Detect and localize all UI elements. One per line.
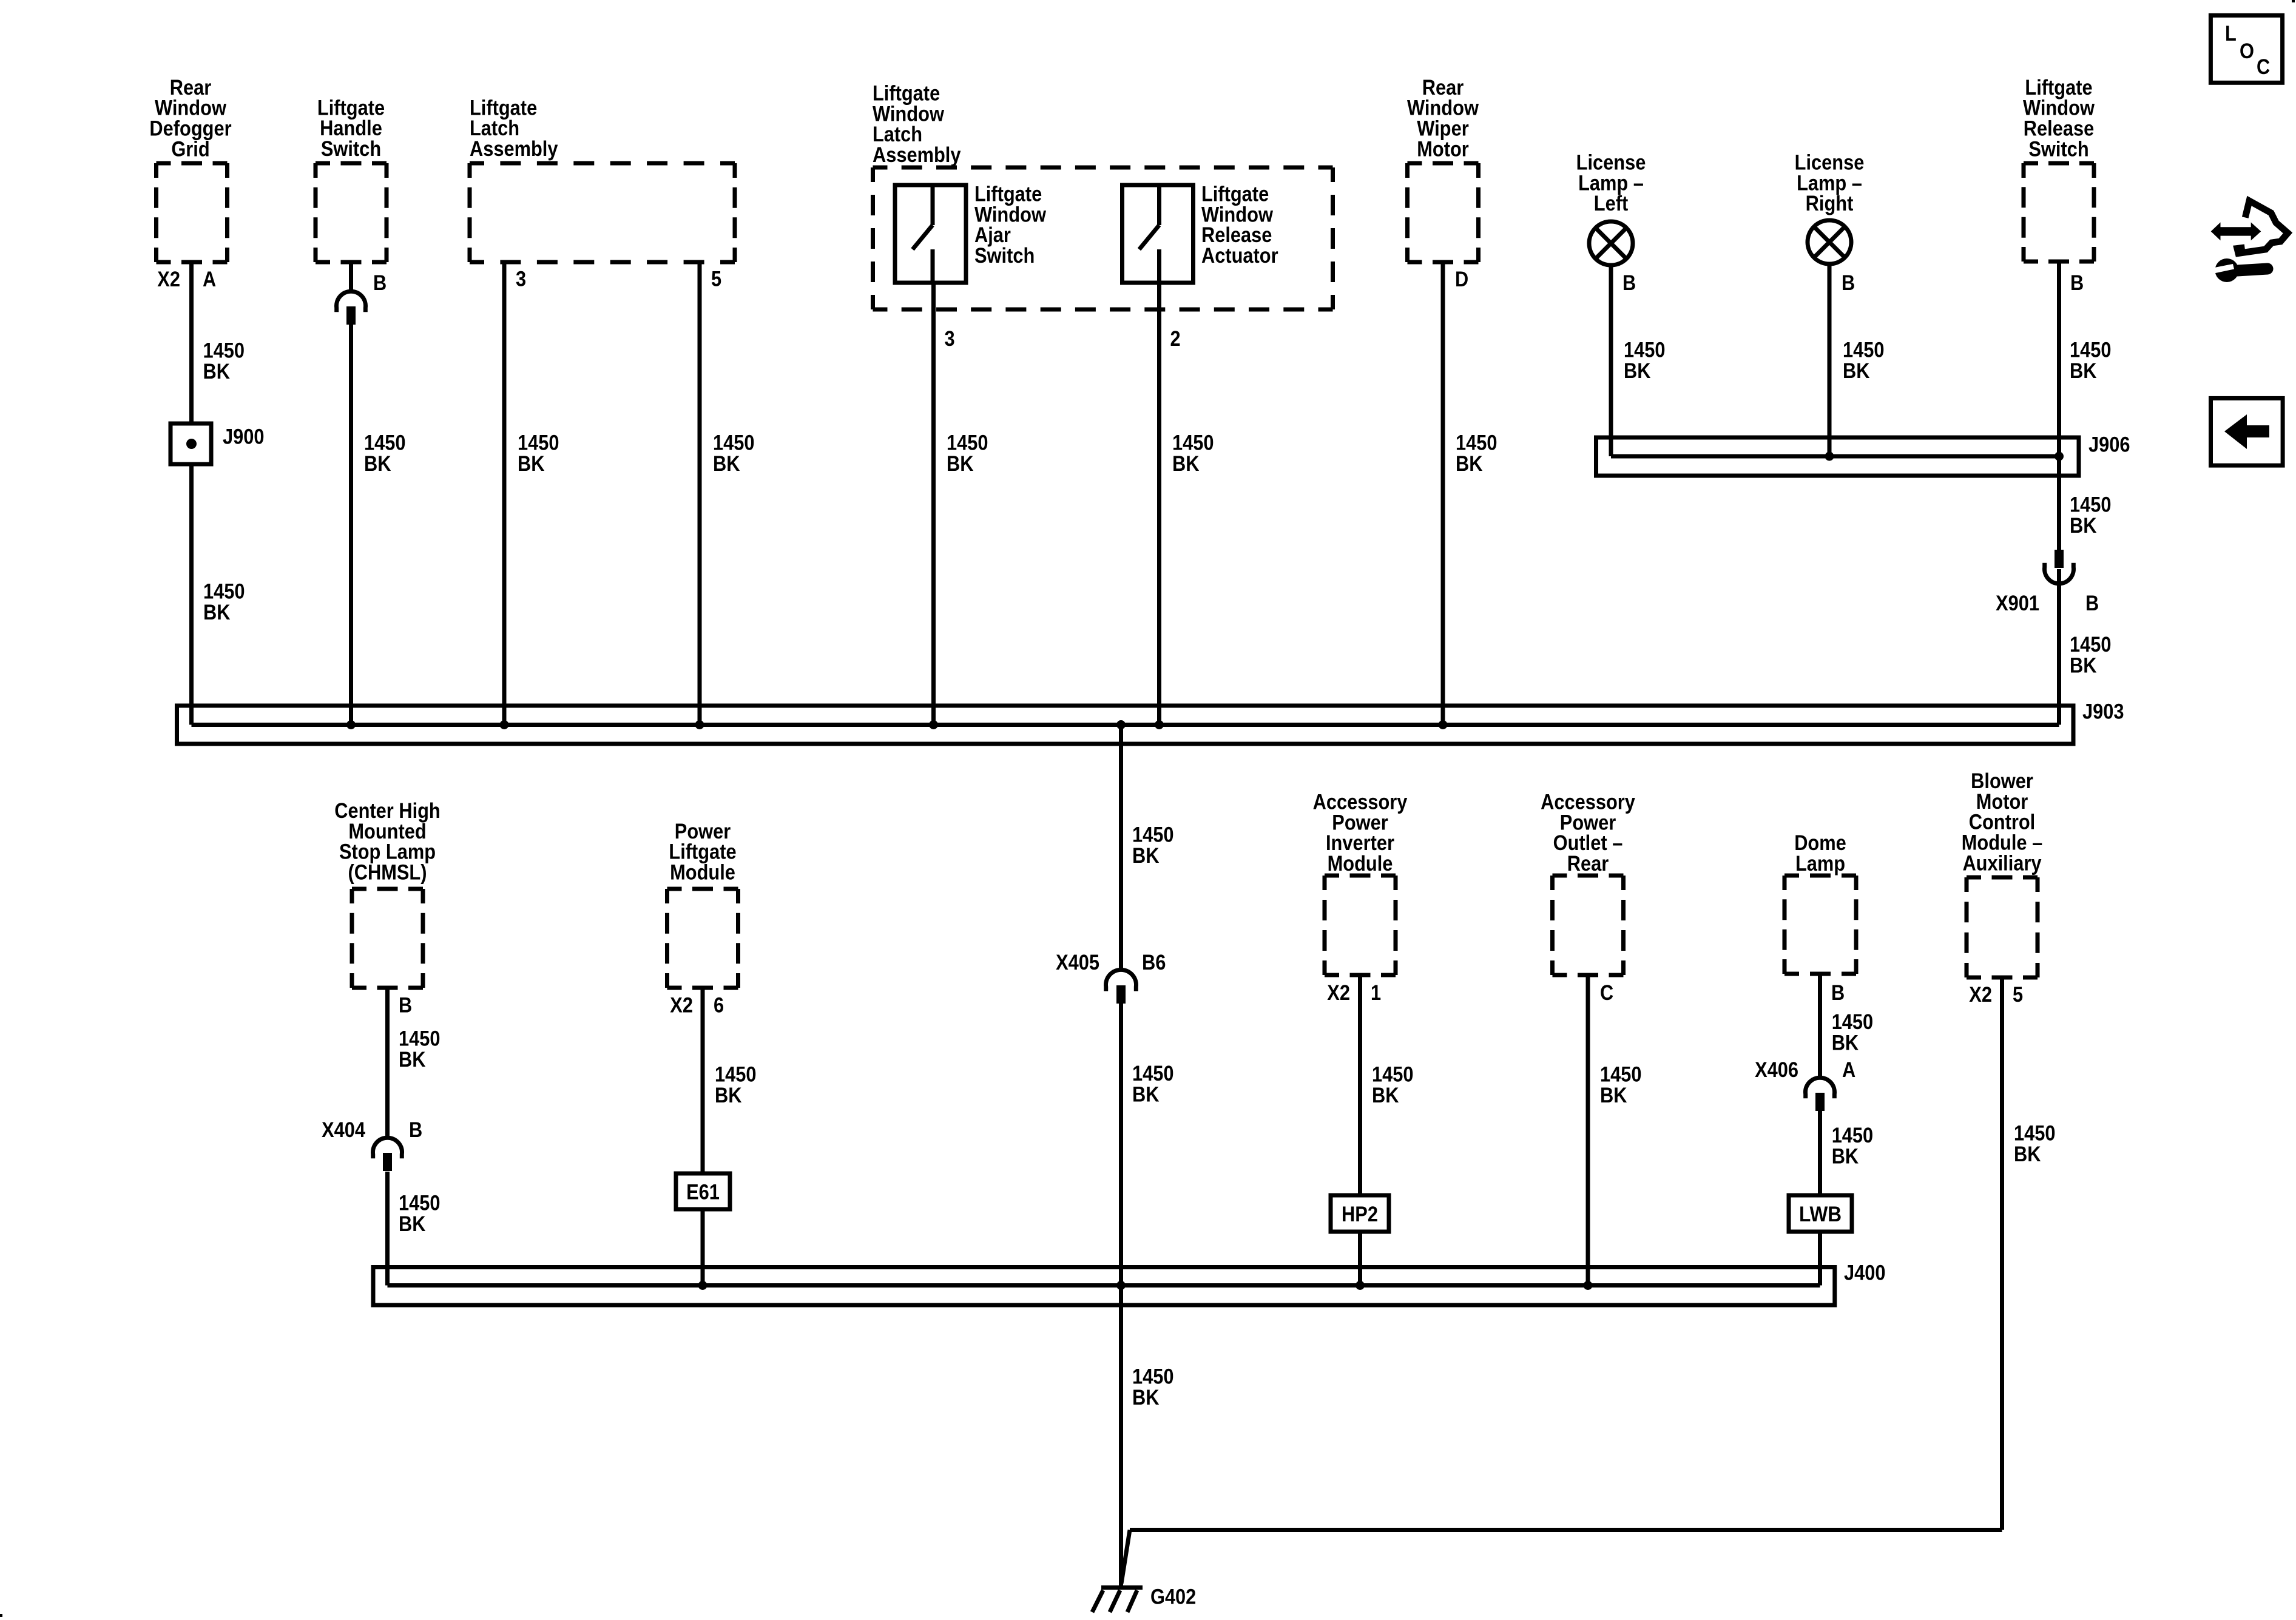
svg-text:1450: 1450 xyxy=(715,1063,757,1087)
wire label 1450 BK (above X901) xyxy=(2070,493,2112,538)
wire: CHMSL pin B to X404 xyxy=(385,988,390,1138)
svg-text:X405: X405 xyxy=(1056,951,1099,974)
wire label 1450 BK (license lamp right) xyxy=(1843,339,1885,383)
svg-text:C: C xyxy=(1600,981,1613,1005)
svg-text:X2: X2 xyxy=(670,994,693,1018)
junction dot J400 center wire xyxy=(1116,1281,1126,1290)
wire label 1450 BK (handle switch) xyxy=(364,431,406,476)
component label: Liftgate Window Release Switch xyxy=(2023,76,2095,161)
svg-text:X2: X2 xyxy=(1327,981,1350,1005)
svg-text:B: B xyxy=(1842,271,1855,295)
splice bus J400 conductor xyxy=(388,1283,1820,1288)
ground symbol G402 xyxy=(1092,1588,1143,1613)
svg-text:BK: BK xyxy=(399,1212,426,1236)
wire label 1450 BK (release actuator) xyxy=(1172,431,1214,476)
wire label 1450 BK (below J903) xyxy=(1132,823,1174,868)
svg-text:Assembly: Assembly xyxy=(470,137,558,161)
svg-text:B: B xyxy=(409,1118,422,1142)
service icon: double arrow / panel outline / wrench xyxy=(2211,201,2288,282)
wire label 1450 BK (accessory power outlet) xyxy=(1600,1063,1642,1108)
component box (dashed): Power Liftgate Module xyxy=(667,889,738,988)
wire: J900 to ground bus J903 xyxy=(189,464,194,725)
inline connector male terminal X404 xyxy=(383,1153,392,1171)
component label: Liftgate Window Latch Assembly xyxy=(873,82,961,167)
junction dot J903 wiper motor xyxy=(1439,720,1448,729)
splice bus J400 outer box xyxy=(373,1267,1835,1306)
svg-text:X2: X2 xyxy=(157,268,180,291)
component box (dashed): Accessory Power Outlet - Rear xyxy=(1553,876,1624,975)
svg-text:BK: BK xyxy=(1172,452,1200,476)
junction dot J903 ajar switch xyxy=(929,720,938,729)
svg-text:1450: 1450 xyxy=(1843,339,1885,362)
wire label 1450 BK (power liftgate module) xyxy=(715,1063,757,1108)
label: Liftgate Window Ajar Switch xyxy=(974,183,1047,268)
svg-text:BK: BK xyxy=(1624,359,1651,383)
wire label 1450 BK (dome lamp lower) xyxy=(1832,1124,1874,1169)
component box (dashed): Rear Window Defogger Grid xyxy=(157,163,228,262)
component box (dashed): Liftgate Window Latch Assembly xyxy=(873,167,1333,309)
svg-text:J906: J906 xyxy=(2088,433,2130,457)
svg-text:1450: 1450 xyxy=(399,1192,441,1215)
wire label 1450 BK (below X901) xyxy=(2070,633,2112,678)
junction dot J906 license lamp right xyxy=(1825,452,1834,461)
svg-text:1450: 1450 xyxy=(364,431,406,455)
svg-text:BK: BK xyxy=(2070,514,2097,538)
svg-text:BK: BK xyxy=(1832,1031,1859,1055)
svg-text:Assembly: Assembly xyxy=(873,143,961,167)
svg-text:D: D xyxy=(1455,268,1468,291)
svg-text:B: B xyxy=(2070,271,2084,295)
inline connector female half X406 xyxy=(1806,1078,1835,1098)
label: Liftgate Window Release Actuator xyxy=(1201,183,1278,268)
junction dot J903 latch pin 5 xyxy=(695,720,704,729)
wire: inverter module to HP2 xyxy=(1358,975,1362,1195)
svg-text:BK: BK xyxy=(713,452,740,476)
svg-text:BK: BK xyxy=(1843,359,1870,383)
svg-text:Module: Module xyxy=(670,861,735,885)
svg-text:1450: 1450 xyxy=(2070,339,2112,362)
wire: connector to J903 xyxy=(349,325,353,725)
svg-text:1450: 1450 xyxy=(1456,431,1497,455)
svg-text:1450: 1450 xyxy=(1832,1124,1874,1147)
component label: License Lamp - Right xyxy=(1795,151,1865,216)
svg-text:BK: BK xyxy=(1832,1145,1859,1169)
svg-text:BK: BK xyxy=(715,1084,742,1107)
svg-text:BK: BK xyxy=(399,1048,426,1072)
component label: License Lamp - Left xyxy=(1576,151,1646,216)
in-line fuse box E61 xyxy=(676,1173,730,1209)
switch symbol: Liftgate Window Release Actuator xyxy=(1140,185,1160,283)
svg-text:Switch: Switch xyxy=(321,137,381,161)
svg-text:BK: BK xyxy=(1600,1084,1627,1107)
wire: license lamp right to J906 xyxy=(1828,264,1832,456)
wire: latch assembly pin 3 to J903 xyxy=(502,262,507,725)
wire: X405 to J400 xyxy=(1119,1004,1123,1286)
splice bus J903 conductor xyxy=(192,723,2059,727)
component label: Accessory Power Inverter Module xyxy=(1313,791,1408,876)
wire label 1450 BK (blower module) xyxy=(2014,1122,2056,1167)
junction dot J906 release switch wire xyxy=(2055,452,2064,461)
svg-text:G402: G402 xyxy=(1150,1585,1196,1609)
svg-text:Lamp: Lamp xyxy=(1795,852,1845,876)
component label: Blower Motor Control Module - Auxiliary xyxy=(1962,769,2043,875)
wire label 1450 BK (below J400) xyxy=(1132,1365,1174,1410)
component box (dashed): CHMSL xyxy=(352,889,423,988)
wire label 1450 BK (defogger lower) xyxy=(203,580,245,625)
svg-text:BK: BK xyxy=(947,452,974,476)
svg-text:B: B xyxy=(1831,981,1845,1005)
svg-text:J400: J400 xyxy=(1844,1261,1886,1285)
svg-text:BK: BK xyxy=(203,360,231,383)
svg-text:X406: X406 xyxy=(1755,1058,1798,1082)
svg-text:C: C xyxy=(2257,55,2270,79)
svg-text:A: A xyxy=(203,268,216,291)
junction dot inside J900 xyxy=(186,439,197,449)
svg-text:BK: BK xyxy=(2070,359,2097,383)
wire label 1450 BK (defogger upper) xyxy=(203,339,245,384)
wire label 1450 BK (CHMSL lower) xyxy=(399,1192,441,1237)
svg-text:O: O xyxy=(2240,39,2254,63)
svg-text:1450: 1450 xyxy=(203,580,245,604)
svg-text:BK: BK xyxy=(1132,1386,1160,1409)
junction dot J903 handle switch xyxy=(346,720,356,729)
wire: blower branch diagonal to ground xyxy=(1121,1530,1130,1584)
component label: Center High Mounted Stop Lamp (CHMSL) xyxy=(334,799,441,884)
svg-text:X404: X404 xyxy=(322,1118,365,1142)
wire label 1450 BK (inverter module) xyxy=(1372,1063,1414,1108)
inline connector female half X404 xyxy=(373,1138,402,1158)
wire label 1450 BK (latch pin 3) xyxy=(518,431,559,476)
svg-text:1450: 1450 xyxy=(1172,431,1214,455)
svg-text:Rear: Rear xyxy=(1567,852,1609,876)
splice bus J906 outer box xyxy=(1596,437,2079,476)
wire: power liftgate module to E61 xyxy=(701,988,705,1173)
component box (dashed): Accessory Power Inverter Module xyxy=(1325,876,1396,975)
wire: X901 to J903 xyxy=(2057,569,2061,725)
svg-text:1450: 1450 xyxy=(518,431,559,455)
component label: Accessory Power Outlet - Rear xyxy=(1541,791,1635,876)
wire: accessory power outlet to J400 xyxy=(1586,975,1590,1286)
wire: handle switch pin B to connector xyxy=(349,262,353,292)
splice bus J906 conductor xyxy=(1611,454,2059,459)
junction dot J903 latch pin 3 xyxy=(500,720,509,729)
switch symbol: Liftgate Window Ajar Switch xyxy=(913,185,933,283)
inline connector female half X405 xyxy=(1106,970,1136,991)
wire: blower branch horizontal to ground path xyxy=(1130,1528,2002,1532)
wire label 1450 BK (release switch) xyxy=(2070,339,2112,383)
component label: Liftgate Latch Assembly xyxy=(470,96,558,161)
svg-text:Actuator: Actuator xyxy=(1201,244,1278,268)
svg-text:2: 2 xyxy=(1170,327,1181,351)
inline connector male terminal X406 xyxy=(1815,1093,1825,1111)
svg-text:BK: BK xyxy=(203,601,231,624)
svg-text:BK: BK xyxy=(2070,654,2097,678)
svg-text:Switch: Switch xyxy=(974,244,1035,268)
svg-text:Auxiliary: Auxiliary xyxy=(1962,851,2042,875)
svg-text:X2: X2 xyxy=(1969,983,1992,1007)
wire: X404 to J400 xyxy=(385,1172,390,1286)
svg-text:BK: BK xyxy=(1132,1083,1160,1107)
previous-page arrow box xyxy=(2211,398,2283,465)
wire: license lamp left to J906 xyxy=(1609,265,1613,456)
component label: Liftgate Handle Switch xyxy=(317,96,385,161)
wire: blower module down right side xyxy=(2000,977,2004,1530)
svg-text:BK: BK xyxy=(1132,844,1160,868)
junction dot J400 HP2 wire xyxy=(1356,1281,1365,1290)
component box (dashed): Dome Lamp xyxy=(1784,876,1856,974)
junction dot J903 center tap xyxy=(1116,720,1126,729)
wire: HP2 to J400 xyxy=(1358,1232,1362,1286)
wire label 1450 BK (dome lamp upper) xyxy=(1832,1010,1874,1055)
wire label 1450 BK (latch pin 5) xyxy=(713,431,755,476)
wire: ajar switch pin 3 to J903 xyxy=(931,283,936,725)
svg-text:1450: 1450 xyxy=(2070,493,2112,517)
svg-text:1450: 1450 xyxy=(1600,1063,1642,1087)
svg-text:HP2: HP2 xyxy=(1342,1203,1378,1226)
inline connector female half X901 (cup) xyxy=(2045,563,2074,584)
wire: dome lamp pin B to X406 xyxy=(1818,974,1822,1078)
svg-text:3: 3 xyxy=(945,327,955,351)
svg-text:1450: 1450 xyxy=(1832,1010,1874,1034)
junction dot J903 release actuator xyxy=(1155,720,1164,729)
inline connector male terminal X901 xyxy=(2055,550,2064,568)
svg-text:Right: Right xyxy=(1806,192,1854,215)
wire label 1450 BK (ajar switch) xyxy=(947,431,988,476)
svg-text:B: B xyxy=(2085,592,2099,615)
svg-text:LWB: LWB xyxy=(1799,1203,1842,1226)
wire: J400 to ground G402 xyxy=(1119,1286,1123,1586)
svg-text:3: 3 xyxy=(516,268,526,291)
svg-text:1450: 1450 xyxy=(2014,1122,2056,1146)
svg-text:1450: 1450 xyxy=(1372,1063,1414,1087)
svg-text:Module: Module xyxy=(1328,852,1393,876)
svg-text:BK: BK xyxy=(1372,1084,1399,1107)
wire label 1450 BK (CHMSL upper) xyxy=(399,1027,441,1072)
svg-text:6: 6 xyxy=(714,994,724,1018)
splice bus J903 outer box xyxy=(177,706,2074,744)
component label: Power Liftgate Module xyxy=(669,820,736,885)
svg-text:5: 5 xyxy=(711,268,721,291)
page corner mark bottom left xyxy=(0,1614,2,1617)
wire: J903 center tap to X405 xyxy=(1119,725,1123,971)
junction dot J400 E61 wire xyxy=(698,1281,707,1290)
svg-text:1450: 1450 xyxy=(1132,1062,1174,1085)
svg-text:B: B xyxy=(399,994,412,1018)
inline connector male terminal X405 xyxy=(1116,985,1126,1004)
wire label 1450 BK (wiper motor) xyxy=(1456,431,1497,476)
svg-text:(CHMSL): (CHMSL) xyxy=(348,861,427,885)
svg-text:BK: BK xyxy=(364,452,391,476)
svg-text:1450: 1450 xyxy=(203,339,245,363)
wire: release switch pin B through J906 to X901 xyxy=(2057,262,2061,550)
wire: X406 to LWB xyxy=(1818,1111,1822,1195)
wire label 1450 BK (license lamp left) xyxy=(1624,339,1666,383)
wire label 1450 BK (above J400) xyxy=(1132,1062,1174,1107)
svg-text:B: B xyxy=(1622,271,1636,295)
svg-text:BK: BK xyxy=(518,452,545,476)
svg-text:1450: 1450 xyxy=(1132,1365,1174,1389)
in-line fuse box HP2 xyxy=(1331,1195,1389,1232)
component label: Rear Window Wiper Motor xyxy=(1407,76,1479,161)
component label: Rear Window Defogger Grid xyxy=(149,76,232,161)
component box (dashed): Blower Motor Control Module - Auxiliary xyxy=(1967,877,2038,977)
component box (dashed): Rear Window Wiper Motor xyxy=(1408,163,1479,262)
wire: LWB to J400 xyxy=(1818,1232,1822,1286)
svg-text:BK: BK xyxy=(2014,1142,2041,1166)
svg-text:5: 5 xyxy=(2013,983,2023,1007)
junction dot J400 outlet wire xyxy=(1584,1281,1593,1290)
inline connector female half (handle switch) xyxy=(337,291,366,312)
svg-text:Grid: Grid xyxy=(171,137,209,161)
lamp symbol: License Lamp - Left xyxy=(1589,221,1633,265)
svg-text:L: L xyxy=(2225,22,2237,46)
svg-text:X901: X901 xyxy=(1996,592,2039,615)
component label: Dome Lamp xyxy=(1794,831,1846,876)
svg-text:1450: 1450 xyxy=(1624,339,1666,362)
svg-text:BK: BK xyxy=(1456,452,1483,476)
svg-text:E61: E61 xyxy=(686,1180,720,1204)
switch box: Liftgate Window Release Actuator xyxy=(1123,185,1194,283)
LOC legend box xyxy=(2210,15,2282,83)
component box (dashed): Liftgate Handle Switch xyxy=(316,163,387,262)
svg-text:1450: 1450 xyxy=(2070,633,2112,656)
switch box: Liftgate Window Ajar Switch xyxy=(895,185,966,283)
svg-text:J903: J903 xyxy=(2082,700,2124,724)
svg-text:J900: J900 xyxy=(223,425,265,449)
svg-text:1450: 1450 xyxy=(713,431,755,455)
page corner mark top right xyxy=(2292,0,2295,2)
svg-text:1450: 1450 xyxy=(1132,823,1174,847)
wire: wiper motor pin D to J903 xyxy=(1441,262,1445,725)
svg-text:1450: 1450 xyxy=(947,431,988,455)
svg-text:A: A xyxy=(1842,1058,1855,1082)
svg-text:1450: 1450 xyxy=(399,1027,441,1051)
component box (dashed): Liftgate Latch Assembly xyxy=(470,163,735,262)
svg-text:Left: Left xyxy=(1594,192,1629,215)
wire: E61 to J400 xyxy=(701,1209,705,1286)
component box (dashed): Liftgate Window Release Switch xyxy=(2024,163,2094,262)
lamp symbol: License Lamp - Right xyxy=(1808,220,1851,264)
svg-text:Switch: Switch xyxy=(2028,137,2088,161)
wire: release actuator pin 2 to J903 xyxy=(1157,283,1161,725)
wire: defogger pin A to splice J900 xyxy=(189,262,194,424)
inline connector male terminal (handle switch) xyxy=(346,306,356,325)
in-line fuse box LWB xyxy=(1789,1195,1852,1232)
svg-text:1: 1 xyxy=(1371,981,1381,1005)
svg-text:B: B xyxy=(373,271,387,295)
svg-text:B6: B6 xyxy=(1142,951,1166,974)
splice J900 box xyxy=(171,424,211,464)
svg-text:Motor: Motor xyxy=(1417,137,1469,161)
wire: latch assembly pin 5 to J903 xyxy=(698,262,702,725)
